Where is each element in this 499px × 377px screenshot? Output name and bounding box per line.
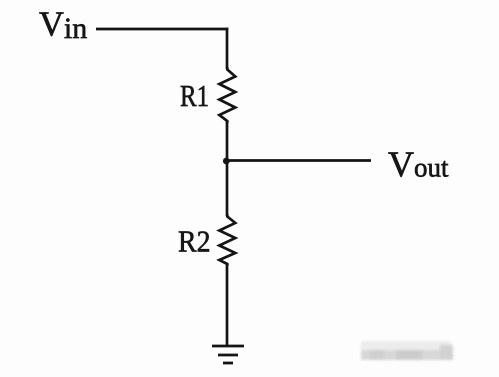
resistor R1	[219, 67, 235, 123]
node junction dot	[223, 158, 230, 165]
svg-text:R2: R2	[178, 224, 211, 259]
svg-text:Vin: Vin	[39, 5, 87, 45]
wire: node to Vout	[227, 159, 371, 162]
wire: R1 bottom to node	[226, 121, 229, 161]
wire: node down to R2 top	[226, 161, 229, 216]
resistor R2	[219, 214, 235, 266]
svg-text:R1: R1	[180, 78, 209, 113]
ground	[212, 346, 244, 363]
wire: corner down to R1 top	[226, 28, 229, 69]
wire: Vin to top-right corner	[96, 28, 228, 31]
watermark blob (decorative)	[361, 341, 453, 360]
wire: R2 bottom to ground	[226, 264, 229, 346]
